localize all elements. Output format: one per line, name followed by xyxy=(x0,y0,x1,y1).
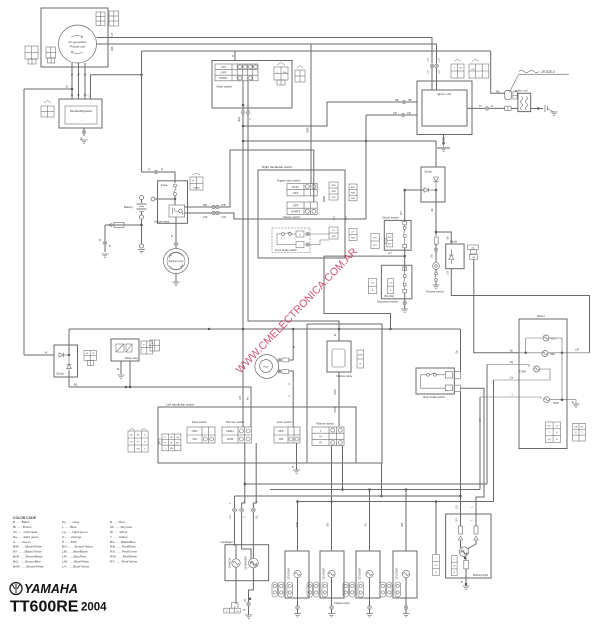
connector on generator box (top right) 1 xyxy=(96,12,105,26)
front brake switch contacts xyxy=(296,231,304,237)
bus wire 1 (Y dimmer high) xyxy=(245,483,487,485)
flasher light rear right feed wire xyxy=(405,578,407,598)
connector Or at coil xyxy=(505,106,511,111)
svg-text:Flasher light: Flasher light xyxy=(334,601,349,605)
svg-text:B/L: B/L xyxy=(74,384,78,387)
ground (starting motor) xyxy=(173,282,180,285)
wire Or from ignitor to coil xyxy=(467,107,505,109)
wire Br rail horizontal xyxy=(69,328,461,330)
svg-text:HB: HB xyxy=(408,99,412,102)
wire R to main switch xyxy=(142,51,236,61)
svg-text:Diode: Diode xyxy=(57,372,65,376)
svg-text:B/Y: B/Y xyxy=(373,245,377,247)
svg-text:Q: Q xyxy=(234,606,236,608)
turn indicator lamp xyxy=(534,366,540,372)
color code legend xyxy=(13,516,138,569)
flasher light rear left bulb xyxy=(366,570,373,577)
svg-text:Or: Or xyxy=(491,105,494,108)
diode box D2 xyxy=(446,244,464,269)
svg-text:W/R: W/R xyxy=(331,191,336,193)
svg-text:Rectifier/Regulator: Rectifier/Regulator xyxy=(70,109,92,113)
svg-text:Br/W .......Brown/White: Br/W .......Brown/White xyxy=(13,565,44,569)
svg-text:Br/L: Br/L xyxy=(247,395,250,400)
svg-text:Ignitor coil: Ignitor coil xyxy=(515,88,528,92)
horn terminals xyxy=(278,359,281,362)
svg-text:G/B: G/B xyxy=(328,523,330,527)
svg-text:Left handlebar switch: Left handlebar switch xyxy=(166,403,195,407)
sidestand connector xyxy=(388,279,394,294)
wire R to ignition coil xyxy=(235,50,491,52)
svg-text:L/Y: L/Y xyxy=(438,70,441,74)
wire flasher relay to flasher switch xyxy=(338,372,340,426)
svg-text:Br/L: Br/L xyxy=(237,116,241,121)
svg-text:AC generator: AC generator xyxy=(68,40,86,44)
svg-text:Br: Br xyxy=(86,352,88,355)
svg-text:TT600RE: TT600RE xyxy=(10,599,79,616)
svg-text:Gy .......Gray: Gy .......Gray xyxy=(62,520,80,524)
wire neutral diode to meter Bu xyxy=(474,259,519,353)
wire flasher box corner to rail xyxy=(381,463,383,496)
svg-text:...: ... xyxy=(80,119,82,122)
svg-text:Starting motor: Starting motor xyxy=(168,260,183,263)
flasher light rear right ground wire xyxy=(405,598,407,614)
svg-text:Or: Or xyxy=(479,105,482,108)
diode box D1 xyxy=(421,167,445,202)
main switch box xyxy=(212,61,292,109)
svg-text:R/Y .......Red/Yellow: R/Y .......Red/Yellow xyxy=(110,560,138,564)
svg-text:R .......Red: R .......Red xyxy=(110,520,125,524)
wire to headlight main bulb xyxy=(252,512,254,558)
svg-text:L/R .......Blue/Red: L/R .......Blue/Red xyxy=(62,555,86,559)
svg-text:W/L: W/L xyxy=(110,46,114,51)
svg-text:W/R: W/R xyxy=(351,192,356,194)
svg-text:R/B .......Red/Black: R/B .......Red/Black xyxy=(110,545,136,549)
svg-text:L/Y: L/Y xyxy=(389,282,393,284)
headlight box xyxy=(225,545,269,581)
ground (headlight) xyxy=(245,615,252,618)
ground (flasher front right) xyxy=(328,614,335,617)
svg-text:R/B: R/B xyxy=(332,197,336,199)
flasher light front right ground wire xyxy=(331,598,333,614)
svg-text:Pickup coil: Pickup coil xyxy=(70,45,85,49)
wire to headlight pilot bulb xyxy=(235,512,237,559)
svg-text:B/W .......Black/White: B/W .......Black/White xyxy=(13,545,42,549)
svg-text:R/B: R/B xyxy=(222,204,226,207)
wire battery negative to ground xyxy=(141,219,143,244)
diode symbol down xyxy=(434,177,439,190)
wire fuel right xyxy=(549,337,562,339)
svg-text:Br/L .......Brown/Blue: Br/L .......Brown/Blue xyxy=(13,560,41,564)
svg-text:G: G xyxy=(257,501,259,503)
svg-text:Dimmer switch: Dimmer switch xyxy=(226,420,245,424)
ground (neutral switch) xyxy=(433,285,440,288)
svg-text:Tail/stop light: Tail/stop light xyxy=(472,573,488,577)
ignitor unit box xyxy=(422,90,467,126)
connector near rectifier xyxy=(41,106,54,117)
svg-text:PARK: PARK xyxy=(220,76,228,80)
svg-text:B/Y: B/Y xyxy=(373,237,377,239)
svg-text:Dg .......Dark green: Dg .......Dark green xyxy=(13,535,39,539)
Yamaha logo xyxy=(10,583,22,595)
relay connector xyxy=(190,177,203,190)
flasher light rear right bulb xyxy=(402,570,409,577)
taillight connector xyxy=(451,556,457,576)
svg-text:B/L .......Black/Blue: B/L .......Black/Blue xyxy=(110,540,136,544)
connector front brake 2 xyxy=(349,229,357,241)
headlight connector xyxy=(224,603,240,613)
wire clutch to diode xyxy=(404,190,406,222)
flasher light rear right connectors xyxy=(380,582,401,597)
svg-text:G/B: G/B xyxy=(402,523,404,527)
resistor (neutral line) xyxy=(435,237,439,244)
svg-text:1F2520-2: 1F2520-2 xyxy=(541,70,555,74)
svg-text:Ignitor unit: Ignitor unit xyxy=(437,92,451,96)
wire branch to diode xyxy=(243,141,436,167)
ground (relay assy) xyxy=(118,375,125,378)
wire turn lamp left Dg xyxy=(487,365,529,368)
wire flasher rear right feed xyxy=(405,490,407,552)
svg-text:R: R xyxy=(161,169,163,172)
wire battery positive xyxy=(153,198,175,200)
svg-text:L/Y: L/Y xyxy=(110,32,114,36)
connector left handlebar 2 xyxy=(162,434,181,451)
flasher light rear left box xyxy=(356,551,380,598)
svg-text:12V60W: 12V60W xyxy=(228,557,232,568)
svg-text:Br: Br xyxy=(581,425,583,428)
flasher light front right feed wire xyxy=(331,578,333,598)
svg-text:L/Y: L/Y xyxy=(427,70,430,74)
connector in right handlebar switch 2 xyxy=(349,184,357,201)
connector above ignitor 2 xyxy=(469,64,489,78)
svg-text:B/Y .......Black/Yellow: B/Y .......Black/Yellow xyxy=(13,550,42,554)
svg-text:OFF: OFF xyxy=(221,71,227,75)
connector at ignition coil xyxy=(513,92,517,99)
svg-text:TURN: TURN xyxy=(519,371,526,374)
svg-text:L/B .......Blue/Black: L/B .......Blue/Black xyxy=(62,550,88,554)
svg-text:12V10W: 12V10W xyxy=(322,568,326,580)
svg-text:G/Y: G/Y xyxy=(457,518,459,522)
svg-text:OFF: OFF xyxy=(192,429,198,433)
B/L rail horizontal xyxy=(69,387,251,427)
wire dimmer low output xyxy=(253,443,256,508)
svg-text:12V10W: 12V10W xyxy=(395,568,399,580)
svg-text:Engine stop switch: Engine stop switch xyxy=(277,179,301,183)
svg-text:L/B: L/B xyxy=(407,112,411,115)
bullet on neutral line xyxy=(434,248,437,251)
svg-text:12V10W: 12V10W xyxy=(358,568,362,580)
main fuse wire xyxy=(105,224,142,226)
wire W phase 3 xyxy=(84,63,86,99)
svg-text:L/Y: L/Y xyxy=(427,58,430,62)
wire Br/L from main switch down xyxy=(242,81,244,427)
connector right of relay assy xyxy=(141,341,153,354)
svg-text:ON: ON xyxy=(279,437,283,441)
wire B from generator junction to left rail xyxy=(24,88,72,90)
ground (horn switch) xyxy=(293,470,300,473)
rear brake switch connectors xyxy=(454,372,460,379)
svg-text:Sidestand switch: Sidestand switch xyxy=(377,300,398,304)
svg-text:L/R: L/R xyxy=(575,348,579,352)
ground (tail/stop light) xyxy=(463,586,470,589)
connector on generator box (top right) 2 xyxy=(109,11,119,26)
svg-text:G .......Green: G .......Green xyxy=(13,540,31,544)
connector small (left edge) xyxy=(150,340,160,351)
wire high beam left Y xyxy=(480,397,541,399)
horn xyxy=(255,355,279,379)
meter box xyxy=(519,319,567,449)
wire neutral lamp right xyxy=(548,352,590,354)
wire W/L to ignitor xyxy=(97,44,437,64)
svg-text:12V10W: 12V10W xyxy=(287,568,291,580)
ground (frame) xyxy=(102,254,109,257)
wire neutral lamp left xyxy=(519,352,542,354)
svg-text:RUN: RUN xyxy=(292,185,298,189)
wire coil low tension xyxy=(491,51,505,93)
svg-text:L/Y: L/Y xyxy=(332,230,336,232)
wire L/B to ignitor xyxy=(366,114,417,116)
wire fuel lamp xyxy=(526,338,543,353)
headlight main bulb xyxy=(249,558,259,568)
wire relay assy to ground xyxy=(120,361,122,374)
flasher light front left bulb xyxy=(294,570,301,577)
wire sidestand to ground xyxy=(404,293,406,309)
svg-text:L/Y: L/Y xyxy=(230,515,232,519)
taillight resistor xyxy=(464,557,466,561)
ground (battery) xyxy=(138,250,145,253)
svg-text:G: G xyxy=(144,435,146,437)
svg-text:O .......Orange: O .......Orange xyxy=(62,535,82,539)
flasher light rear left connectors xyxy=(343,582,364,597)
svg-text:L/Y: L/Y xyxy=(351,232,355,234)
main feed wire R vertical xyxy=(141,51,143,172)
svg-text:Ch .......Chocolate: Ch .......Chocolate xyxy=(13,530,38,534)
relay assy box xyxy=(111,339,139,361)
taillight fuse 2 xyxy=(474,526,478,534)
svg-text:M: M xyxy=(237,611,239,613)
bus wire Y up to meter xyxy=(479,397,481,490)
svg-text:G/Y: G/Y xyxy=(457,505,459,509)
fuel indicator lamp xyxy=(543,335,549,341)
svg-text:HIGH: HIGH xyxy=(553,402,559,405)
wire horn to horn switch xyxy=(289,371,293,427)
svg-text:Br/Y .......Brown/Yellow: Br/Y .......Brown/Yellow xyxy=(62,545,94,549)
svg-text:L/B: L/B xyxy=(471,69,475,71)
svg-text:Pass switch: Pass switch xyxy=(192,420,207,424)
ignitor ground wire with spark gap xyxy=(443,135,445,145)
svg-text:P .......Pink: P .......Pink xyxy=(62,540,77,544)
svg-text:Sb .......Sky blue: Sb .......Sky blue xyxy=(110,525,132,529)
wire starter relay to starting motor xyxy=(175,217,177,248)
wire W phase 1 xyxy=(71,63,73,99)
svg-text:Fuse: Fuse xyxy=(161,183,168,187)
svg-text:L/B: L/B xyxy=(447,271,450,275)
ground (spark plug) xyxy=(548,109,554,113)
flasher light front right box xyxy=(320,551,344,598)
svg-text:RELAY: RELAY xyxy=(193,186,200,189)
wire to diode 2 xyxy=(436,232,451,244)
rear brake switch box xyxy=(416,368,454,394)
flasher light rear left ground wire xyxy=(369,598,371,614)
wire coil HT to spark plug xyxy=(531,108,543,110)
connector near diode3 xyxy=(84,351,96,361)
flasher relay xyxy=(327,341,351,372)
svg-text:Br: Br xyxy=(334,334,337,337)
wire flasher light A feed xyxy=(297,502,299,552)
ground (meter) xyxy=(573,404,580,407)
wire turn lamp right xyxy=(494,369,551,380)
svg-text:Starter switch: Starter switch xyxy=(283,215,300,219)
bus wire 4 (Dg turn rail) xyxy=(298,501,494,503)
svg-text:Main switch: Main switch xyxy=(217,85,233,89)
AC generator box xyxy=(41,8,108,67)
wire engine stop to starter switch xyxy=(323,196,325,202)
connector in right handlebar switch 1 xyxy=(329,182,338,200)
svg-text:Y .......Yellow: Y .......Yellow xyxy=(110,535,128,539)
wire R from rectifier to main feed xyxy=(91,74,142,76)
svg-text:Diode: Diode xyxy=(425,170,433,174)
ground (flasher rear left) xyxy=(366,614,373,617)
wire horn to Br rail xyxy=(289,329,293,360)
fuse F1 xyxy=(174,184,177,196)
flasher light front left connectors xyxy=(272,582,293,597)
neutral indicator lamp xyxy=(542,351,548,357)
wire W phase 2 xyxy=(78,63,80,99)
svg-text:L/R: L/R xyxy=(574,426,578,428)
wire dimmer high output xyxy=(242,443,245,508)
meter connector 2 xyxy=(573,423,586,441)
wire diode to neutral switch xyxy=(435,190,437,236)
taillight feed connector xyxy=(433,555,440,576)
right handlebar switch box xyxy=(258,170,345,258)
taillight ground wire xyxy=(465,569,467,586)
fuse and starter relay box xyxy=(158,181,188,224)
svg-text:W/R: W/R xyxy=(306,127,310,132)
fuse connector 30a in main switch box 2 xyxy=(295,70,305,82)
svg-text:Diode: Diode xyxy=(450,240,458,244)
svg-text:R/B: R/B xyxy=(239,396,242,400)
svg-text:L/B: L/B xyxy=(472,257,476,259)
wire motor to ground xyxy=(175,274,177,283)
ignitor unit outer box xyxy=(417,81,472,135)
svg-text:L/Y: L/Y xyxy=(371,282,375,284)
clutch switch box xyxy=(384,220,411,250)
svg-text:Rear brake switch: Rear brake switch xyxy=(423,395,445,399)
high beam indicator lamp xyxy=(544,397,550,403)
bullet connectors L/Y above ignitor xyxy=(430,64,434,68)
clutch switch connector xyxy=(387,234,393,247)
connector front brake 1 xyxy=(329,227,338,239)
svg-text:OFF: OFF xyxy=(293,203,299,207)
wire diode3 bottom to B/L rail xyxy=(68,371,70,387)
bus wire to taillight connector xyxy=(435,502,437,555)
connector left handlebar 1 xyxy=(128,431,148,452)
tail/stop light box xyxy=(446,514,491,578)
sidestand switch box xyxy=(381,265,412,299)
flasher light front right connectors xyxy=(307,582,328,597)
svg-text:12V60/55W: 12V60/55W xyxy=(244,556,248,570)
wire diode to clutch switch xyxy=(405,189,424,191)
svg-text:R: R xyxy=(232,54,234,58)
wire R/B from starter relay to starter switch xyxy=(185,150,314,207)
left rail wire B down xyxy=(23,89,25,355)
starting motor M1 xyxy=(164,249,189,274)
wire clutch to sidestand switch xyxy=(404,248,406,271)
connector left of sidestand xyxy=(368,279,376,294)
ground (ignitor) xyxy=(437,147,450,149)
wire L/Y from generator to ignitor xyxy=(97,38,433,64)
wire flasher switch output R xyxy=(342,446,344,490)
svg-text:Br: Br xyxy=(293,346,296,349)
svg-text:B/Y: B/Y xyxy=(333,216,336,220)
bus wire Ch up to meter xyxy=(493,380,495,502)
wire headlight to connector xyxy=(235,567,237,604)
bus wire Dg up to meter xyxy=(486,365,488,485)
rectifier ground wire xyxy=(83,128,85,136)
flasher relay connector xyxy=(357,350,364,368)
svg-text:2004: 2004 xyxy=(81,602,107,614)
svg-text:C: C xyxy=(88,95,90,98)
svg-text:Meter: Meter xyxy=(537,314,545,318)
wire diode3 to Br rail xyxy=(68,329,70,355)
front brake switch xyxy=(272,228,310,253)
wire to frame ground xyxy=(104,225,106,252)
AC generator / pickup coil G1 xyxy=(59,25,97,63)
connector left of generator 2 xyxy=(46,47,56,58)
svg-text:Flasher switch: Flasher switch xyxy=(316,422,334,426)
fuse connector 30a in main switch box 1 xyxy=(274,67,288,80)
svg-text:R: R xyxy=(149,169,151,172)
svg-text:Br/B .......Brown/Black: Br/B .......Brown/Black xyxy=(13,555,43,559)
svg-text:N: N xyxy=(319,435,321,439)
spark plug xyxy=(545,105,548,112)
svg-text:Front brake switch: Front brake switch xyxy=(275,248,297,252)
svg-text:Br: Br xyxy=(130,441,132,444)
rectifier/regulator box xyxy=(59,99,102,128)
wire branch to ignitor HB xyxy=(243,102,417,126)
rear brake switch terminals xyxy=(445,372,452,378)
bus wire 3 (G/Y rail) xyxy=(235,495,461,497)
svg-text:B/Y: B/Y xyxy=(388,237,392,239)
svg-text:L .......Blue: L .......Blue xyxy=(62,525,77,529)
neutral switch xyxy=(433,263,440,270)
connector right of diode 2 xyxy=(468,245,479,250)
svg-text:L/W: L/W xyxy=(203,216,208,219)
clutch switch contacts xyxy=(403,222,407,248)
flasher light front left ground wire xyxy=(297,598,299,614)
ground (rectifier) xyxy=(81,140,88,143)
svg-text:Clutch switch: Clutch switch xyxy=(382,216,399,220)
svg-text:Br/W: Br/W xyxy=(334,389,337,395)
wire L from main switch down xyxy=(248,81,339,341)
svg-text:R/B: R/B xyxy=(351,198,355,200)
headlight pilot bulb xyxy=(232,559,240,567)
svg-text:Neutral switch: Neutral switch xyxy=(426,290,444,294)
svg-text:Br/W: Br/W xyxy=(334,407,337,413)
svg-text:Battery: Battery xyxy=(124,205,133,209)
svg-text:Headlight: Headlight xyxy=(221,540,233,544)
meter connector 1 xyxy=(546,422,561,442)
svg-text:B/Y: B/Y xyxy=(345,216,348,220)
svg-text:Horn switch: Horn switch xyxy=(277,420,292,424)
note label 1F2520-2 xyxy=(519,70,539,72)
svg-text:Br: Br xyxy=(117,368,120,371)
svg-text:(BA,LKE): (BA,LKE) xyxy=(384,295,394,298)
wire L/W from starter relay xyxy=(182,213,184,215)
svg-text:ON: ON xyxy=(192,437,196,441)
svg-text:OFF: OFF xyxy=(293,191,299,195)
wire fuse to starter relay xyxy=(174,199,176,205)
svg-text:HIGH: HIGH xyxy=(226,429,233,433)
